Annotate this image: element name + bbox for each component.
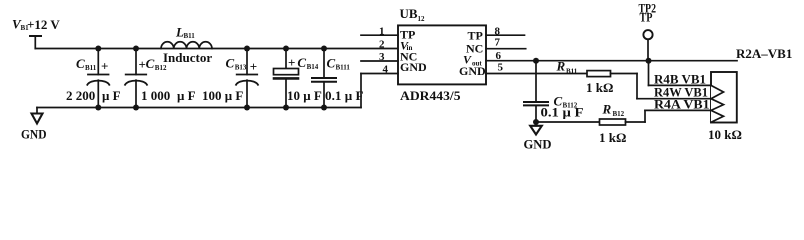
IC left column labels [400, 28, 427, 75]
svg-text:R: R [602, 102, 612, 117]
node CB11 bottom [95, 105, 101, 111]
svg-text:GND: GND [400, 60, 427, 74]
test point TP2 [643, 30, 652, 61]
node CB111 top [321, 46, 327, 52]
resistor RB12 [536, 110, 645, 125]
svg-text:2: 2 [379, 39, 385, 51]
IC UB12 box [398, 25, 486, 84]
wire R4A row [645, 109, 711, 111]
svg-text:B11: B11 [184, 32, 196, 40]
pin 2 (Vin) joins top rail [379, 39, 385, 51]
svg-text:R4A VB1: R4A VB1 [654, 97, 710, 112]
svg-text:1 000: 1 000 [141, 88, 170, 103]
IC right column labels [459, 29, 486, 79]
svg-text:C: C [76, 56, 85, 71]
svg-text:GND: GND [459, 64, 486, 78]
svg-text:μ F: μ F [177, 88, 196, 103]
svg-text:0.1 μ F: 0.1 μ F [541, 105, 584, 120]
power terminal VB1 +12V [30, 36, 41, 49]
svg-text:TP: TP [468, 29, 483, 43]
pin 5 wire to RB11 [486, 73, 587, 75]
svg-text:1 kΩ: 1 kΩ [586, 80, 613, 95]
capacitor CB13 [236, 49, 258, 108]
svg-text:UB: UB [400, 6, 418, 21]
node Vout / CB112 junction [533, 58, 539, 64]
svg-text:6: 6 [496, 50, 502, 62]
node CB14 bottom [283, 105, 289, 111]
ground GND left [32, 108, 43, 124]
connector chevron R4W [711, 99, 724, 111]
ground GND right [530, 122, 542, 135]
connector chevron R4A [711, 110, 724, 122]
svg-text:μ F: μ F [102, 88, 121, 103]
pin 6 Vout wire [486, 60, 737, 62]
svg-text:+: + [250, 59, 257, 74]
svg-text:B11: B11 [566, 68, 578, 76]
svg-text:B12: B12 [155, 64, 167, 72]
svg-text:4: 4 [383, 64, 389, 76]
node TP2 / R4B junction [646, 58, 652, 64]
svg-text:GND: GND [21, 127, 47, 142]
svg-text:C: C [327, 56, 336, 71]
node CB12 top [133, 46, 139, 52]
capacitor CB14 [274, 49, 299, 108]
svg-text:0.1 μ F: 0.1 μ F [325, 88, 364, 103]
svg-text:+: + [288, 55, 295, 70]
svg-text:GND: GND [524, 137, 552, 152]
label R4B VB1 [654, 72, 706, 87]
node CB11 top [95, 46, 101, 52]
pin 8 stub [486, 34, 525, 36]
svg-text:ADR443/5: ADR443/5 [400, 88, 461, 103]
svg-text:12: 12 [418, 15, 426, 23]
svg-text:2 200: 2 200 [66, 88, 95, 103]
svg-text:B12: B12 [613, 110, 625, 118]
capacitor CB111 [312, 49, 336, 108]
node CB12 bottom [133, 105, 139, 111]
svg-text:B13: B13 [235, 64, 247, 72]
label 10 kOhm [708, 127, 742, 142]
wire Vout to R4B row [648, 61, 650, 86]
inductor LB11 [161, 42, 212, 49]
node CB13 bottom [244, 105, 250, 111]
connector chevron R4B [711, 85, 724, 98]
node RB12 branch [533, 119, 539, 125]
resistor RB11 [587, 71, 637, 99]
svg-text:+12 V: +12 V [27, 17, 60, 32]
pin 1 stub [361, 34, 398, 36]
wire R4W row [637, 98, 711, 100]
pin 4 GND wire [361, 73, 398, 75]
svg-text:1 kΩ: 1 kΩ [599, 130, 626, 145]
svg-text:7: 7 [495, 37, 501, 49]
wire R4B row [649, 84, 712, 86]
capacitor CB112 [524, 61, 548, 122]
label VB1 +12 V [12, 17, 60, 33]
node CB111 bottom [321, 105, 327, 111]
svg-text:C: C [297, 55, 306, 70]
svg-text:C: C [226, 56, 235, 71]
svg-text:B14: B14 [307, 63, 319, 71]
svg-text:R2A–VB1: R2A–VB1 [736, 46, 792, 61]
svg-text:100 μ F: 100 μ F [202, 88, 243, 103]
svg-text:R: R [556, 59, 566, 74]
svg-text:C: C [146, 56, 155, 71]
wire bottom rail [37, 107, 361, 109]
svg-text:Inductor: Inductor [163, 50, 212, 65]
svg-text:B11: B11 [85, 64, 97, 72]
pin 3 stub [361, 60, 398, 62]
pin 7 stub [486, 48, 526, 50]
svg-text:TP: TP [640, 10, 653, 25]
svg-text:B111: B111 [336, 64, 351, 72]
svg-text:10 μ F: 10 μ F [287, 88, 322, 103]
label R2A-VB1 [736, 46, 792, 61]
label R4W VB1 [654, 85, 708, 100]
svg-text:5: 5 [498, 62, 504, 74]
potentiometer network 10k box [711, 72, 737, 123]
svg-text:1: 1 [379, 26, 385, 38]
wire top rail [35, 48, 398, 50]
capacitor CB11 [87, 49, 109, 108]
label R4A VB1 [654, 97, 710, 112]
capacitor CB12 [125, 49, 147, 108]
svg-text:10 kΩ: 10 kΩ [708, 127, 742, 142]
svg-text:+: + [101, 59, 108, 74]
node CB13 top [244, 46, 250, 52]
svg-text:3: 3 [379, 51, 385, 63]
node CB14 top [283, 46, 289, 52]
